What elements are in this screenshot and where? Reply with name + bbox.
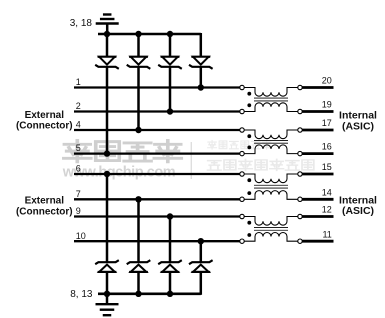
svg-text:5: 5 [76,143,81,153]
TVS diode D7 [158,260,182,295]
svg-text:16: 16 [322,142,332,152]
junction line 5 / D1 [104,150,110,156]
wire line 6 to D5 [106,174,109,262]
svg-text:External: External [25,110,65,121]
svg-text:7: 7 [76,189,81,199]
junction bottom rail / ground [104,291,110,297]
junction top rail / D3 [167,31,173,37]
junction line 2 / D3 [167,108,173,114]
wire line 4 (external pin 4) [74,129,240,131]
junction top rail / ground [104,31,110,37]
wire pin 12 stub [302,215,333,218]
junction bottom rail / D7 [167,291,173,297]
transformer T3 [240,172,302,202]
wire line 9 to D7 [169,217,172,263]
wire D3 cathode to line 2 [169,67,172,112]
TVS diode D4 [189,33,213,69]
wire pin 16 stub [302,152,333,155]
TVS diode D1 [95,33,119,69]
transformer T1 [240,85,302,113]
junction line 7 / D6 [135,196,141,202]
svg-text:External: External [25,196,65,207]
junction bottom rail / D6 [135,291,141,297]
wire line 1 (external pin 1) [74,86,240,88]
junction top rail / D2 [135,31,141,37]
wire line 10 (external pin 10) [74,240,240,242]
wire line 5 (external pin 5) [74,152,240,154]
wire D1 cathode to line 5 [106,67,109,154]
svg-text:20: 20 [322,76,332,86]
transformer T2 [240,128,302,156]
bottom ESD rail wire [98,292,201,295]
TVS diode D3 [158,33,182,69]
TVS diode D6 [127,260,151,295]
svg-text:14: 14 [322,187,332,197]
svg-text:(ASIC): (ASIC) [342,120,374,132]
svg-text:1: 1 [76,77,81,87]
junction line 4 / D2 [135,127,141,133]
junction line 9 / D7 [167,213,173,219]
top ESD rail wire [98,33,201,36]
TVS diode D5 [95,260,119,295]
wire line 10 to D8 [200,241,203,262]
TVS diode D2 [127,33,151,69]
wire D2 cathode to line 4 [137,67,140,130]
svg-text:11: 11 [322,229,331,239]
wire pin 14 stub [302,198,333,201]
junction line 6 / D5 [104,171,110,177]
ground GND bottom (pins 8, 13) [96,294,119,315]
svg-text:9: 9 [76,206,81,216]
svg-text:(Connector): (Connector) [16,206,73,217]
wire line 9 (external pin 9) [74,215,240,217]
svg-text:10: 10 [76,231,86,241]
svg-text:8, 13: 8, 13 [70,289,93,300]
wire D4 cathode to line 1 [200,67,203,88]
wire line 2 (external pin 2) [74,110,240,112]
svg-text:6: 6 [76,164,81,174]
wire pin 20 stub [302,86,333,89]
svg-text:(Connector): (Connector) [16,121,73,132]
svg-text:15: 15 [322,162,332,172]
svg-text:(ASIC): (ASIC) [342,205,374,217]
wire line 6 (external pin 6) [74,173,240,175]
svg-text:4: 4 [76,120,81,130]
wire pin 19 stub [302,110,333,113]
wire pin 15 stub [302,173,333,176]
junction line 10 / D8 [198,238,204,244]
svg-text:19: 19 [322,100,332,110]
svg-text:17: 17 [322,118,332,128]
wire line 7 to D6 [137,199,140,262]
TVS diode D8 [189,260,213,295]
ground GND top (pins 3, 18) [96,15,119,35]
wire pin 11 stub [302,240,333,243]
wire pin 17 stub [302,129,333,132]
wire line 7 (external pin 7) [74,198,240,200]
transformer T4 [240,214,302,243]
svg-text:12: 12 [322,205,332,215]
svg-text:3, 18: 3, 18 [70,18,93,29]
svg-text:2: 2 [76,101,81,111]
junction line 1 / D4 [198,84,204,90]
